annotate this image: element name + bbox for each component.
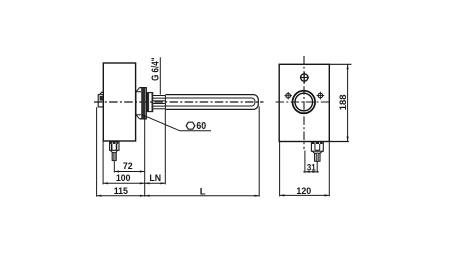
tube inner bbox=[165, 98, 255, 106]
tube outer bbox=[165, 95, 258, 110]
wire vertical centerline front view bbox=[303, 56, 305, 149]
dimension 72 bbox=[114, 161, 144, 173]
dimension L bbox=[145, 107, 260, 197]
housing box left view bbox=[103, 63, 135, 141]
svg-text:72: 72 bbox=[123, 161, 133, 172]
left hole bbox=[284, 92, 292, 100]
front view plate bbox=[279, 64, 329, 141]
svg-text:L: L bbox=[200, 187, 206, 198]
svg-text:LN: LN bbox=[149, 173, 161, 184]
svg-text:188: 188 bbox=[338, 95, 349, 111]
top screw hole bbox=[301, 74, 308, 81]
thread G6/4 section bbox=[153, 96, 166, 109]
boss circle outer bbox=[293, 91, 316, 114]
svg-text:115: 115 bbox=[114, 186, 129, 197]
node G6/4 extension line bbox=[159, 57, 161, 94]
dimension 120 bbox=[280, 142, 330, 196]
flange hex head bbox=[136, 88, 146, 119]
dimension 100 bbox=[103, 142, 145, 185]
wire centerline left view bbox=[94, 101, 264, 103]
dimension LN bbox=[145, 110, 166, 185]
wire horizontal centerline front view bbox=[276, 101, 331, 103]
hex symbol bbox=[186, 122, 195, 129]
dimension 115 bbox=[97, 107, 145, 196]
svg-text:60: 60 bbox=[196, 121, 206, 132]
right hole bbox=[317, 92, 325, 100]
collar nut bbox=[147, 93, 153, 112]
bottom cable gland left view bbox=[110, 142, 119, 161]
svg-text:100: 100 bbox=[116, 173, 130, 184]
svg-text:120: 120 bbox=[296, 186, 311, 197]
dimension 188 bbox=[329, 64, 351, 141]
boss circle inner bbox=[295, 93, 313, 111]
svg-text:G 6/4": G 6/4" bbox=[151, 58, 162, 81]
dimension 31 bbox=[303, 151, 319, 173]
left cable gland fitting bbox=[98, 92, 104, 107]
bottom cable gland front view bbox=[311, 142, 323, 162]
svg-text:31: 31 bbox=[307, 162, 316, 173]
leader line to hex 60 bbox=[142, 115, 211, 131]
